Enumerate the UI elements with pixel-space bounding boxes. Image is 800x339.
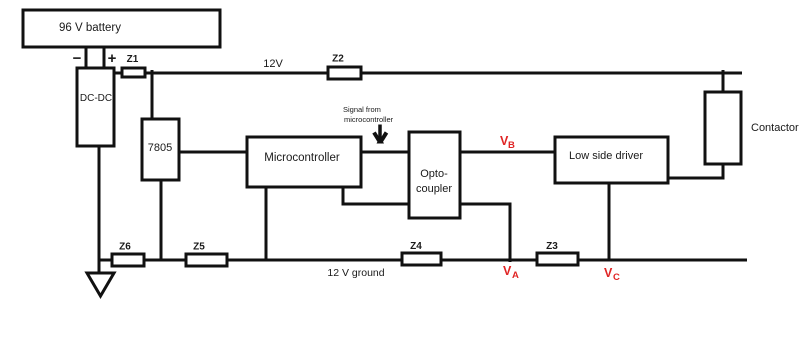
wire opto-coupler bottom to node VA on ground rail [459,204,510,262]
wire 12V rail [145,72,742,75]
resistor Z3 [537,241,578,265]
svg-text:−: − [73,50,82,67]
resistor Z2 [328,54,361,80]
svg-text:V: V [604,266,613,280]
wire dc-dc bottom to ground symbol [98,146,101,274]
svg-text:12V: 12V [263,58,283,70]
svg-text:12 V ground: 12 V ground [327,267,384,279]
svg-text:+: + [108,50,117,67]
wire ground rail [98,259,747,262]
annotation signal from microcontroller [343,105,394,124]
resistor Z4 [402,241,441,265]
wire 12V rail down to contactor top [722,70,725,94]
resistor Z5 [186,242,227,267]
opto-coupler [409,132,460,218]
svg-text:B: B [508,140,515,151]
wire microcontroller bottom pin to ground rail [265,187,268,260]
node VA label [503,264,519,281]
svg-text:coupler: coupler [416,183,452,195]
wire 7805 output to microcontroller [179,151,249,154]
svg-text:V: V [503,264,512,278]
resistor Z6 [112,242,144,267]
svg-text:Contactor: Contactor [751,122,799,134]
svg-text:Z2: Z2 [332,54,344,65]
wire dc-dc output to resistor Z1 [114,72,122,75]
svg-text:C: C [613,272,620,283]
regulator 7805 [142,119,179,180]
wire microcontroller to opto-coupler top pin [361,151,410,154]
svg-text:Opto-: Opto- [420,168,448,180]
wire battery negative terminal [85,46,88,68]
node VC label [604,266,620,283]
svg-text:Z3: Z3 [546,241,558,252]
low side driver [555,137,668,183]
svg-text:Z6: Z6 [119,242,131,253]
battery 96V [23,10,220,47]
wire microcontroller bottom pin to opto-coupler bottom pin [343,187,410,204]
svg-text:Z1: Z1 [127,54,139,65]
svg-text:Z4: Z4 [410,241,422,252]
wire low side driver output to contactor bottom [668,162,723,178]
svg-text:microcontroller: microcontroller [344,115,394,124]
dc-dc converter [77,68,114,146]
svg-text:Signal from: Signal from [343,105,381,114]
wire opto-coupler output to low side driver (node VB) [459,151,555,154]
wire battery positive terminal [103,46,106,68]
microcontroller U1 [247,137,361,187]
wire low side driver bottom to ground rail (node VC) [608,183,611,260]
svg-text:A: A [512,270,519,281]
svg-text:Microcontroller: Microcontroller [264,152,340,164]
svg-text:Low side driver: Low side driver [569,150,643,162]
contactor coil [705,92,741,164]
svg-text:96 V battery: 96 V battery [59,22,121,34]
node VB label [500,134,515,151]
arrow annotation pointer [374,125,387,144]
svg-text:Z5: Z5 [193,242,205,253]
resistor Z1 [122,54,145,77]
wire 7805 bottom to ground rail [160,180,163,260]
ground symbol [87,273,114,296]
wire 12V rail down to 7805 input [151,70,154,120]
svg-text:DC-DC: DC-DC [80,93,112,104]
svg-text:7805: 7805 [148,142,172,154]
